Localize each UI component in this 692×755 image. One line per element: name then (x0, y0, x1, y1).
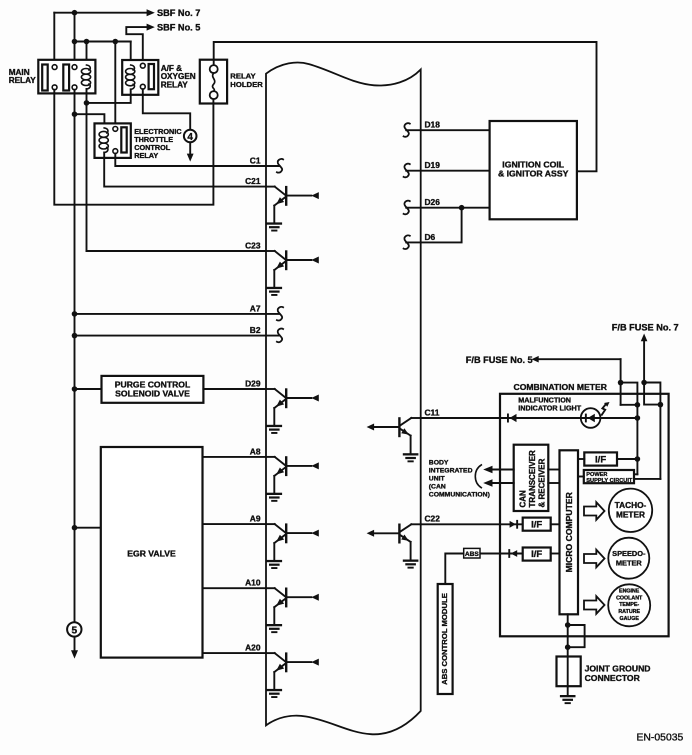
component I/F interface ABS (523, 548, 551, 561)
component MICRO COMPUTER (560, 450, 579, 614)
junction D26-D6 (459, 205, 465, 211)
ground of Q7 (A20 driver) (267, 689, 283, 698)
svg-text:C1: C1 (250, 155, 261, 165)
wire ABS to meter (445, 554, 522, 585)
transistor Q4 (A8 driver) (266, 457, 319, 493)
node SBF No. 7 (147, 8, 201, 18)
svg-text:5: 5 (71, 626, 77, 637)
wire micro computer to power supply circuit (578, 476, 584, 478)
svg-text:RELAY: RELAY (134, 151, 158, 160)
wire ground connector loop (568, 625, 585, 647)
svg-text:B2: B2 (250, 325, 261, 335)
arrow to speedometer (584, 550, 605, 568)
wire F/B5 rail to MIL and I/F (634, 405, 637, 475)
junction I/F top rail (635, 456, 641, 462)
wire F/B7 rail to power supply circuit (634, 405, 660, 479)
svg-text:F/B FUSE No. 7: F/B FUSE No. 7 (612, 323, 679, 333)
node B2 (250, 325, 283, 342)
wire ETC relay coil feed (75, 114, 105, 128)
ground of Q8 (C11 driver) (403, 453, 419, 462)
junction F/B5 loop (618, 380, 640, 408)
svg-text:& RECEIVER: & RECEIVER (538, 458, 547, 507)
wire to chassis ground (567, 686, 569, 695)
svg-text:COMBINATION METER: COMBINATION METER (514, 382, 608, 392)
svg-text:C11: C11 (425, 407, 440, 417)
wire CAN low to body integrated unit (483, 479, 514, 487)
svg-text:COMMUNICATION): COMMUNICATION) (429, 491, 490, 498)
svg-text:EGR VALVE: EGR VALVE (127, 549, 176, 559)
svg-text:A20: A20 (245, 643, 261, 653)
transistor Q6 (A10 driver) (266, 588, 319, 624)
junction A7 (72, 311, 78, 317)
svg-text:D6: D6 (425, 232, 436, 242)
component I/F interface C22 (523, 518, 551, 531)
node circled 4 (184, 130, 197, 162)
wire micro computer to I/F top (578, 458, 584, 460)
wire B2 (75, 335, 280, 337)
svg-text:JOINT GROUND: JOINT GROUND (585, 664, 651, 674)
component IGNITION COIL & IGNITOR ASSY (490, 121, 577, 219)
wire relay holder to ignition coil assy (214, 42, 597, 171)
node BODY INTEGRATED UNIT (CAN COMMUNICATION) (429, 459, 490, 498)
junction on SBF7 line (72, 10, 78, 16)
svg-text:SOLENOID VALVE: SOLENOID VALVE (115, 389, 190, 399)
svg-text:INDICATOR LIGHT: INDICATOR LIGHT (518, 404, 581, 413)
node A9 (250, 514, 261, 524)
wire C11 to MIL (421, 417, 638, 419)
svg-text:& IGNITOR ASSY: & IGNITOR ASSY (498, 168, 569, 178)
node D26 (404, 197, 441, 214)
component CAN TRANSCEIVER & RECEIVER (514, 445, 549, 511)
wire I/F C22 to micro computer (551, 523, 560, 525)
transistor Q9 (C22 driver) (367, 524, 421, 559)
wire D19 to ignition coil (406, 170, 489, 172)
transistor Q2 (C23 driver) (266, 251, 319, 287)
wire C1 from ETC relay contact (115, 154, 279, 166)
transistor Q1 (C21 driver) (266, 187, 319, 223)
wire bus from SBF7 to relays (75, 13, 131, 127)
wire F/B7 connector loop (644, 383, 660, 405)
wire I/F top to F/B5 rail (617, 458, 637, 460)
wire A8 (203, 456, 267, 458)
svg-text:ABS: ABS (465, 551, 480, 558)
component PURGE CONTROL SOLENOID VALVE (102, 376, 204, 403)
label EN-05035 (637, 733, 684, 744)
node ABS tag (464, 548, 480, 558)
LED MIL lamp (581, 402, 610, 428)
ground of Q6 (A10 driver) (267, 624, 283, 633)
svg-text:C22: C22 (425, 514, 441, 524)
node F/B FUSE No. 7 (612, 323, 679, 383)
component MALFUNCTION INDICATOR LIGHT (518, 396, 581, 413)
transistor Q5 (A9 driver) (266, 524, 319, 560)
ECM engine control module outline (266, 63, 421, 735)
component SPEEDO-METER (608, 538, 649, 579)
wire CAN to micro computer (548, 470, 559, 484)
component COMBINATION METER (500, 382, 669, 636)
svg-text:COOLANT: COOLANT (616, 595, 643, 601)
node C1 (250, 155, 283, 172)
svg-text:RELAY: RELAY (9, 76, 37, 85)
svg-text:UNIT: UNIT (429, 475, 446, 482)
junction EGR feed (72, 525, 78, 531)
junction purge feed (72, 386, 78, 392)
wire C21 from ETC relay coil (104, 153, 266, 187)
wire A20 (203, 652, 267, 654)
component ABS CONTROL MODULE (438, 584, 453, 694)
node F/B FUSE No. 5 (466, 355, 621, 405)
ground of Q3 (D29 driver) (267, 425, 283, 434)
wire purge valve feed (75, 388, 102, 390)
ground of Q9 (C22 driver) (403, 560, 419, 569)
transistor Q3 (D29 driver) (266, 389, 319, 425)
wire I/F ABS to micro computer (551, 553, 560, 555)
junction A/F coil - coil rail (84, 100, 90, 106)
svg-text:(CAN: (CAN (429, 483, 446, 490)
svg-text:D26: D26 (425, 197, 441, 207)
svg-text:TACHO-: TACHO- (615, 500, 647, 510)
svg-text:C23: C23 (245, 240, 261, 250)
node D18 (404, 120, 441, 137)
svg-text:BODY: BODY (429, 459, 449, 466)
wire C22 from ECM to meter (421, 523, 523, 525)
wire SBF No. 7 feed (54, 13, 147, 65)
diode D-ABS (508, 549, 517, 558)
component JOINT GROUND CONNECTOR (557, 657, 651, 687)
svg-text:F/B FUSE No. 5: F/B FUSE No. 5 (466, 355, 533, 365)
ground of Q4 (A8 driver) (267, 493, 283, 502)
svg-text:METER: METER (616, 510, 645, 520)
wire A9 (203, 523, 267, 525)
svg-text:ENGINE: ENGINE (619, 589, 640, 595)
wire D18 to ignition coil (406, 129, 489, 131)
svg-text:RATURE: RATURE (618, 609, 640, 615)
svg-text:METER: METER (616, 559, 643, 568)
relay holder (200, 60, 263, 104)
node D19 (404, 160, 441, 177)
svg-text:D18: D18 (425, 120, 441, 130)
arrow to tachometer (584, 502, 605, 520)
svg-text:MICRO COMPUTER: MICRO COMPUTER (564, 491, 574, 572)
ground of Q5 (A9 driver) (267, 560, 283, 569)
svg-text:CAN: CAN (519, 490, 528, 508)
junction B2 (72, 333, 78, 339)
svg-text:I/F: I/F (595, 455, 606, 466)
relay ELECTRONIC THROTTLE CONTROL RELAY (95, 123, 183, 159)
arrow to engine coolant gauge (584, 596, 605, 614)
svg-text:INTEGRATED: INTEGRATED (429, 467, 473, 474)
wire A/F relay contact to circled 4 (143, 89, 190, 130)
wire C23 from main relay coil rail (87, 250, 267, 252)
wire A10 (203, 587, 267, 589)
wire A7 (75, 313, 280, 315)
junction bus-main coil (72, 39, 118, 45)
wire main relay contact2 rail down (74, 90, 76, 623)
wire main relay coil rail down to C23 (86, 89, 88, 251)
svg-text:C21: C21 (245, 176, 261, 186)
node circled 5 (67, 622, 81, 658)
wire F/B5 connector loop (621, 383, 638, 405)
node C11 (425, 407, 440, 417)
svg-text:ABS CONTROL MODULE: ABS CONTROL MODULE (440, 593, 449, 685)
node C21 (245, 176, 261, 186)
svg-text:A10: A10 (245, 578, 261, 588)
svg-text:I/F: I/F (531, 549, 542, 560)
wire main relay contact to relay holder (54, 90, 213, 205)
ground of Q2 (C23 driver) (267, 287, 283, 296)
transistor Q7 (A20 driver) (266, 653, 319, 689)
svg-text:HOLDER: HOLDER (230, 80, 263, 89)
svg-text:SBF No. 7: SBF No. 7 (157, 8, 200, 18)
component ENGINE COOLANT TEMPERATURE GAUGE (608, 584, 650, 626)
wire D26 to ignition coil (406, 207, 489, 209)
component EGR VALVE (101, 447, 203, 658)
wire A/F coil bottom to main coil rail (87, 89, 131, 103)
node A8 (250, 446, 261, 456)
component POWER SUPPLY CIRCUIT (584, 470, 634, 484)
node D29 (245, 378, 261, 388)
svg-text:TRANSCEIVER: TRANSCEIVER (528, 450, 537, 508)
svg-text:D19: D19 (425, 160, 441, 170)
svg-text:4: 4 (187, 132, 193, 143)
node D6 (404, 232, 436, 249)
junction ground loop (565, 622, 571, 650)
svg-text:RELAY: RELAY (161, 80, 189, 89)
node A7 (250, 303, 283, 320)
svg-text:I/F: I/F (531, 520, 542, 531)
diode D-C22 (510, 520, 519, 529)
svg-text:EN-05035: EN-05035 (637, 733, 684, 744)
node C22 (425, 514, 441, 524)
diode D-MIL on C11 wire (507, 414, 517, 423)
transistor Q8 (C11 driver) (367, 418, 421, 453)
junction F/B7 loop (641, 380, 663, 408)
node C23 (245, 240, 261, 250)
svg-text:SBF No. 5: SBF No. 5 (157, 22, 200, 32)
ground chassis (560, 695, 576, 704)
node A10 (245, 578, 261, 588)
node A20 (245, 643, 261, 653)
wire CAN high to body integrated unit (483, 466, 514, 474)
svg-text:A9: A9 (250, 514, 261, 524)
junction ETC feed (72, 111, 78, 117)
wire D6 to D26 (406, 208, 461, 243)
relay A/F & OXYGEN RELAY (122, 60, 196, 95)
junction MIL rail (635, 415, 641, 421)
ground of Q1 (C21 driver) (267, 222, 283, 231)
svg-text:TEMPE-: TEMPE- (619, 602, 639, 608)
svg-text:D29: D29 (245, 378, 261, 388)
svg-text:SPEEDO-: SPEEDO- (612, 549, 646, 558)
wire EGR feed (75, 527, 101, 529)
svg-text:SUPPLY CIRCUIT: SUPPLY CIRCUIT (586, 478, 633, 484)
node SBF No. 5 (147, 22, 201, 32)
wire D29 (203, 388, 266, 390)
wire micro computer ground (567, 614, 569, 656)
svg-text:CONNECTOR: CONNECTOR (585, 673, 641, 683)
component I/F interface top (584, 452, 617, 465)
svg-text:GAUGE: GAUGE (619, 616, 639, 622)
relay MAIN RELAY (9, 60, 96, 94)
wire SBF No. 5 feed (126, 27, 147, 63)
svg-text:A8: A8 (250, 446, 261, 456)
svg-text:A7: A7 (250, 303, 261, 313)
component TACHO-METER (609, 489, 652, 532)
